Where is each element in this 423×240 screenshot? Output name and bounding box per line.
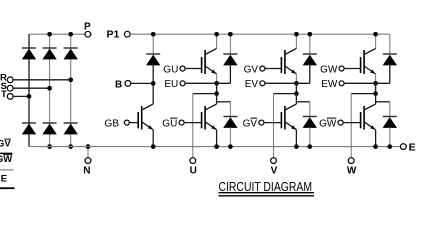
- wire: inverter top rail: [130, 33, 390, 35]
- svg-text:CIRCUIT DIAGRAM: CIRCUIT DIAGRAM: [219, 180, 313, 194]
- wire: branch to D11 cathode: [217, 101, 231, 103]
- svg-text:EW: EW: [321, 79, 338, 90]
- svg-text:GW: GW: [0, 154, 12, 165]
- svg-text:T: T: [1, 89, 7, 100]
- transistor Q1 high-side U IGBT: [216, 34, 218, 48]
- node: Q4 emitter rail junction: [294, 144, 299, 149]
- svg-text:U: U: [190, 165, 197, 176]
- svg-text:B: B: [115, 80, 122, 91]
- svg-text:GV: GV: [0, 139, 11, 150]
- wire: EU line to phase node: [185, 82, 230, 84]
- wire: rectifier input column 2: [49, 34, 51, 146]
- diode D9 high-side freewheel: [309, 34, 311, 54]
- wire: rectifier input column 3: [70, 34, 72, 146]
- diode D1 rectifier top: [22, 47, 36, 49]
- wire: N terminal stub: [87, 147, 89, 158]
- node: phase node U top: [214, 81, 219, 86]
- node: phase node W top: [373, 81, 378, 86]
- wire: R input lead: [13, 79, 71, 81]
- transistor Q7 brake IGBT: [141, 106, 143, 130]
- svg-text:GU: GU: [162, 119, 177, 130]
- node: D8 cathode rail junction: [228, 32, 233, 37]
- wire: output U vertical: [192, 94, 194, 158]
- svg-text:GB: GB: [105, 119, 120, 130]
- diode D5 rectifier bottom: [43, 122, 57, 124]
- node: phase node V top: [294, 81, 299, 86]
- svg-text:V: V: [271, 165, 278, 176]
- node: brake emitter junction: [151, 144, 156, 149]
- svg-text:EV: EV: [245, 79, 259, 90]
- diode D8 high-side freewheel: [229, 34, 231, 54]
- svg-text:W: W: [347, 165, 357, 176]
- wire: phase node vertical: [295, 83, 297, 93]
- node: S junction: [47, 86, 52, 91]
- svg-text:GU: GU: [163, 65, 178, 76]
- node: phase node V mid: [294, 91, 299, 96]
- terminal E: [400, 144, 406, 150]
- terminal N: [85, 158, 91, 164]
- node: bottom rail junction col2: [47, 144, 52, 149]
- transistor Q2 low-side U IGBT: [204, 106, 206, 130]
- transistor Q3 high-side V IGBT: [295, 34, 297, 48]
- svg-text:E: E: [409, 141, 416, 153]
- node: Q1 collector rail junction: [214, 32, 219, 37]
- wire: output W vertical: [350, 94, 352, 158]
- diode D6 rectifier bottom: [64, 122, 78, 124]
- wire: low-side gate lead: [184, 122, 202, 124]
- node: D13 anode rail junction: [387, 144, 392, 149]
- svg-text:E: E: [1, 173, 7, 184]
- wire: GV gate lead: [265, 68, 282, 70]
- svg-text:GW: GW: [320, 65, 338, 76]
- wire: Q6 collector vertical: [375, 94, 377, 104]
- wire: GW gate lead: [344, 68, 361, 70]
- wire: Q4 collector vertical: [295, 94, 297, 104]
- diode D10 high-side freewheel: [389, 34, 391, 54]
- transistor Q4 low-side V IGBT: [284, 106, 286, 130]
- wire: low-side gate lead: [343, 122, 361, 124]
- wire: B lead: [131, 82, 153, 84]
- diode D2 rectifier top: [43, 47, 57, 49]
- node: N junction on bottom rail: [86, 144, 91, 149]
- wire: branch to output W: [351, 93, 375, 95]
- wire: T input lead: [13, 95, 29, 97]
- node: D9 cathode rail junction: [307, 32, 312, 37]
- node: D11 anode rail junction: [228, 144, 233, 149]
- wire: phase node vertical: [375, 83, 377, 93]
- node: top rail junction col3: [68, 32, 73, 37]
- svg-text:GV: GV: [243, 119, 258, 130]
- terminal U output: [190, 158, 196, 164]
- diode D11 low-side freewheel: [223, 116, 237, 118]
- node: phase node U mid: [214, 91, 219, 96]
- terminal V output: [271, 158, 277, 164]
- wire: common bottom rail N to E: [29, 146, 400, 148]
- svg-text:GV: GV: [244, 65, 259, 76]
- node: T junction: [27, 94, 32, 99]
- wire: low-side gate lead: [264, 122, 282, 124]
- node: phase node W mid: [373, 91, 378, 96]
- node: B junction: [151, 81, 156, 86]
- node: D12 anode rail junction: [307, 144, 312, 149]
- node: bottom rail junction col3: [68, 144, 73, 149]
- node: top rail junction col2: [47, 32, 52, 37]
- svg-text:EU: EU: [164, 79, 178, 90]
- svg-text:P1: P1: [107, 29, 120, 41]
- wire: Q2 collector vertical: [216, 94, 218, 104]
- node: Q2 emitter rail junction: [214, 144, 219, 149]
- transistor Q5 high-side W IGBT: [375, 34, 377, 48]
- wire: EW line to phase node: [344, 82, 390, 84]
- wire: branch to output V: [274, 93, 297, 95]
- wire: brake emitter to bottom rail: [152, 130, 154, 147]
- diode D4 rectifier bottom: [22, 122, 36, 124]
- wire: phase node vertical: [216, 83, 218, 93]
- node: R junction: [68, 77, 73, 82]
- node: brake top rail junction: [151, 32, 156, 37]
- transistor Q6 low-side W IGBT: [363, 106, 365, 130]
- diode D3 rectifier top: [64, 47, 78, 49]
- node: Q6 emitter rail junction: [373, 144, 378, 149]
- wire: S input lead: [13, 87, 50, 89]
- node: Q3 collector rail junction: [294, 32, 299, 37]
- diode D13 low-side freewheel: [383, 116, 397, 118]
- diode D7 brake: [152, 34, 154, 54]
- wire: output V vertical: [273, 94, 275, 158]
- wire: GB gate lead: [129, 122, 138, 124]
- wire: GU gate lead: [185, 68, 202, 70]
- svg-text:N: N: [83, 165, 90, 176]
- wire: brake diode anode to collector: [152, 65, 154, 104]
- wire: branch to D13 cathode: [376, 101, 390, 103]
- wire: EV line to phase node: [265, 82, 310, 84]
- diode D12 low-side freewheel: [303, 116, 317, 118]
- svg-text:GW: GW: [319, 119, 337, 130]
- wire: branch to output U: [193, 93, 217, 95]
- terminal W output: [348, 158, 354, 164]
- wire: rectifier top rail to P: [29, 33, 85, 35]
- wire: rectifier input column 1: [28, 34, 30, 146]
- wire: branch to D12 cathode: [296, 101, 309, 103]
- node: Q5 collector rail junction: [373, 32, 378, 37]
